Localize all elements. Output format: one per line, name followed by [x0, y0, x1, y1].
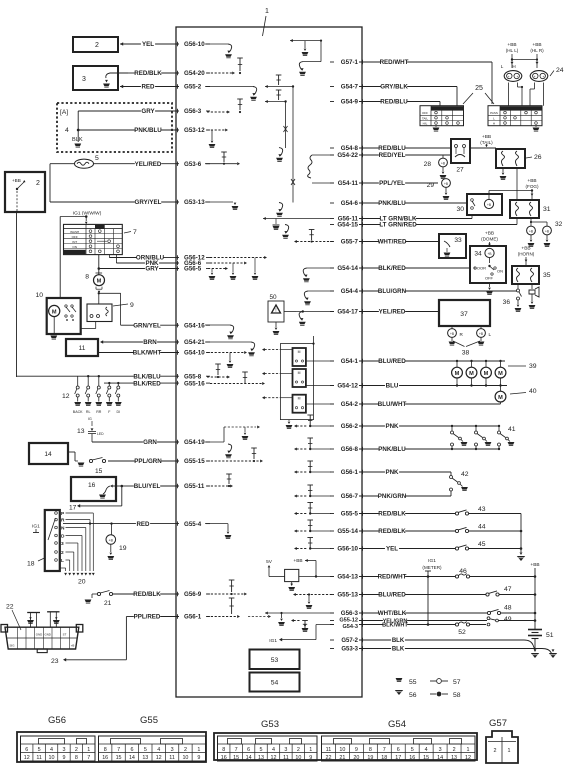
svg-text:6: 6: [25, 747, 28, 753]
svg-text:G54-15: G54-15: [337, 222, 358, 229]
svg-text:M: M: [298, 397, 301, 401]
svg-text:57: 57: [453, 679, 461, 686]
svg-text:BLU/WHT: BLU/WHT: [378, 401, 407, 408]
svg-text:18: 18: [27, 561, 35, 568]
svg-text:G53: G53: [261, 719, 279, 730]
svg-text:35: 35: [543, 272, 551, 279]
svg-text:4: 4: [272, 747, 275, 753]
svg-text:R: R: [61, 517, 65, 523]
svg-text:(METER): (METER): [422, 565, 442, 570]
svg-text:OFF: OFF: [485, 276, 494, 281]
svg-text:G55-5: G55-5: [341, 511, 359, 518]
svg-text:3: 3: [62, 747, 65, 753]
svg-text:IG1: IG1: [32, 524, 40, 530]
interior: G56-3 circuit: [265, 612, 334, 614]
svg-text:H: H: [512, 64, 515, 69]
interior: G56-10 circuit: [205, 43, 228, 45]
svg-text:G53-3: G53-3: [341, 647, 358, 653]
svg-text:+B: +B: [529, 229, 533, 233]
svg-text:11: 11: [79, 345, 86, 352]
wire BLK/RED G55-16: [104, 382, 134, 384]
svg-text:34: 34: [474, 251, 482, 258]
svg-text:BLK/WHT: BLK/WHT: [382, 623, 408, 629]
svg-text:16: 16: [88, 482, 96, 489]
svg-text:28: 28: [424, 161, 432, 168]
svg-text:G57: G57: [489, 718, 507, 729]
wiring inside box A to ground: [77, 111, 79, 130]
wire BLK/BLU G55-8: [17, 375, 134, 377]
wiper motor 8: [98, 255, 100, 275]
svg-text:N: N: [61, 525, 65, 531]
svg-text:5: 5: [411, 747, 414, 753]
svg-text:L: L: [489, 332, 492, 337]
svg-text:PNK: PNK: [385, 423, 399, 430]
svg-text:4: 4: [65, 127, 69, 134]
svg-text:OFF: OFF: [72, 235, 78, 239]
svg-text:4: 4: [157, 747, 160, 753]
svg-text:+B: +B: [71, 644, 75, 648]
svg-text:+BB: +BB: [530, 562, 539, 568]
svg-text:+: +: [533, 75, 535, 79]
svg-text:G55-16: G55-16: [184, 380, 205, 387]
svg-text:49: 49: [504, 616, 512, 623]
svg-text:ON: ON: [72, 245, 77, 249]
svg-text:RED/BLK: RED/BLK: [134, 70, 162, 77]
svg-text:G56-7: G56-7: [341, 493, 359, 500]
svg-text:G53-6: G53-6: [184, 161, 202, 168]
interior: G54-19 circuit: [205, 441, 224, 443]
svg-text:18: 18: [381, 755, 387, 761]
svg-text:2: 2: [494, 748, 497, 754]
svg-text:G55-14: G55-14: [337, 528, 358, 535]
svg-text:7: 7: [133, 229, 137, 236]
svg-text:BRN: BRN: [143, 339, 157, 346]
svg-text:G54-13: G54-13: [337, 574, 358, 581]
svg-text:5: 5: [38, 747, 41, 753]
svg-text:RR: RR: [96, 410, 102, 414]
svg-text:G56-5: G56-5: [184, 266, 202, 273]
svg-text:6: 6: [130, 747, 133, 753]
svg-text:BLU/RED: BLU/RED: [378, 358, 406, 365]
svg-text:G54-22: G54-22: [337, 152, 358, 159]
wire GRN G54-19: [92, 441, 143, 443]
svg-text:G54-11: G54-11: [338, 180, 359, 187]
wire RED/BLK G54-20: [128, 72, 135, 74]
svg-text:G54-7: G54-7: [341, 84, 359, 91]
svg-text:RED/BLU: RED/BLU: [378, 145, 406, 152]
svg-text:13: 13: [77, 428, 85, 435]
svg-text:8: 8: [104, 747, 107, 753]
svg-text:37: 37: [460, 311, 468, 318]
interior: G56-1 circuit: [207, 616, 238, 618]
svg-text:H/L: H/L: [423, 122, 428, 126]
interior right: G54-14 circuit: [307, 267, 334, 269]
svg-text:RED: RED: [141, 84, 155, 91]
svg-text:G54: G54: [388, 719, 406, 730]
svg-text:1: 1: [265, 8, 269, 15]
svg-text:(HL L): (HL L): [506, 48, 519, 53]
headlamp wires to dimmer table: [508, 83, 510, 106]
svg-text:BLK: BLK: [392, 638, 405, 644]
wire GRY G56-3: [78, 110, 141, 112]
svg-text:INT: INT: [72, 240, 77, 244]
svg-text:20: 20: [78, 579, 86, 586]
svg-text:3: 3: [82, 76, 86, 83]
interior right: G54-4 circuit: [308, 290, 334, 292]
svg-text:RED/YEL: RED/YEL: [379, 152, 406, 159]
interior: G55-12 circuit: [294, 620, 301, 622]
transistor hook inside box 3: [106, 73, 128, 78]
svg-text:BLU/RED: BLU/RED: [378, 592, 406, 599]
svg-text:8: 8: [222, 747, 225, 753]
svg-text:WASH: WASH: [70, 230, 79, 234]
svg-text:46: 46: [459, 568, 467, 575]
svg-text:BLU: BLU: [386, 383, 399, 390]
svg-text:15: 15: [423, 755, 429, 761]
svg-text:(HL R): (HL R): [530, 48, 544, 53]
svg-text:PASS: PASS: [490, 111, 498, 115]
svg-text:M: M: [97, 279, 102, 285]
svg-text:5: 5: [95, 155, 99, 162]
svg-text:+: +: [507, 75, 509, 79]
svg-text:RED: RED: [136, 521, 150, 528]
svg-text:10: 10: [339, 747, 345, 753]
svg-text:39: 39: [529, 363, 537, 370]
interior right: G54-1 G54-12 G54-2 connections: [306, 360, 334, 362]
svg-text:GND: GND: [36, 633, 42, 637]
fog lamp switch box 30: [467, 194, 502, 215]
bus to ground right of 43-45: [520, 514, 522, 553]
svg-text:3: 3: [61, 541, 64, 547]
svg-text:50: 50: [269, 294, 277, 301]
motor 40: [500, 386, 502, 392]
interior: G56-12 G56-6 G56-5 circuits: [210, 257, 265, 259]
svg-text:17: 17: [395, 755, 401, 761]
svg-text:12: 12: [465, 755, 471, 761]
svg-text:9: 9: [130, 302, 134, 309]
svg-text:+B: +B: [109, 539, 114, 543]
svg-text:8: 8: [75, 755, 78, 761]
svg-text:6: 6: [247, 747, 250, 753]
svg-text:PNK/BLU: PNK/BLU: [134, 127, 162, 134]
svg-text:LT GRN/RED: LT GRN/RED: [379, 222, 417, 229]
component box 11: [66, 339, 98, 356]
svg-text:PNK/GRN: PNK/GRN: [378, 493, 407, 500]
svg-text:52: 52: [458, 629, 466, 636]
svg-text:7: 7: [87, 755, 90, 761]
svg-text:16: 16: [409, 755, 415, 761]
svg-text:GND: GND: [44, 633, 50, 637]
long wire from box 2 down left margin: [16, 212, 18, 377]
svg-text:M: M: [52, 309, 57, 315]
interior: G55-13 circuit: [296, 594, 335, 596]
svg-text:G56-3: G56-3: [341, 610, 359, 617]
svg-text:BLK: BLK: [392, 647, 405, 653]
fog bulbs 32: [527, 226, 536, 235]
wire RED G55-4: [63, 523, 136, 525]
svg-text:15: 15: [116, 755, 122, 761]
interior: G54-20 circuit: [207, 72, 233, 74]
svg-text:19: 19: [367, 755, 373, 761]
svg-text:1: 1: [309, 747, 312, 753]
svg-text:+BB: +BB: [12, 178, 21, 183]
svg-text:44: 44: [478, 524, 486, 531]
svg-text:4: 4: [50, 747, 53, 753]
svg-text:11: 11: [169, 755, 175, 761]
svg-text:LED: LED: [97, 432, 104, 436]
wire RED G55-2: [122, 86, 141, 88]
svg-text:G53-13: G53-13: [184, 199, 205, 206]
svg-text:21: 21: [339, 755, 345, 761]
svg-text:G54-16: G54-16: [184, 322, 205, 329]
svg-text:GRN: GRN: [143, 439, 157, 446]
svg-text:11: 11: [283, 755, 289, 761]
svg-text:G55-12: G55-12: [339, 617, 358, 623]
interior: G54-16 circuit: [205, 324, 230, 326]
interior right: top feed G57-1: [290, 40, 321, 42]
dashed option box [A] item 4: [57, 103, 172, 152]
svg-text:7: 7: [117, 747, 120, 753]
interior: G53-12 circuit: [207, 129, 226, 131]
svg-text:RL: RL: [86, 410, 91, 414]
interior: G55-11 circuit: [207, 485, 231, 487]
lighting switch table (left of 25): [420, 106, 464, 126]
svg-text:RED/WHT: RED/WHT: [378, 574, 407, 581]
svg-text:+B: +B: [450, 332, 454, 336]
svg-text:41: 41: [508, 426, 516, 433]
svg-text:DI: DI: [117, 410, 121, 414]
wire PPL/GRN G55-15 with switch 15: [68, 451, 75, 453]
svg-text:L: L: [61, 558, 64, 564]
component box 2 (top): [73, 37, 118, 52]
svg-text:11: 11: [36, 755, 42, 761]
svg-text:M: M: [498, 371, 503, 377]
svg-text:14: 14: [44, 451, 52, 458]
svg-text:G54-2: G54-2: [341, 401, 359, 408]
svg-text:PPL/RED: PPL/RED: [134, 614, 161, 621]
svg-text:YEL: YEL: [386, 546, 398, 553]
svg-text:24: 24: [556, 67, 564, 74]
svg-text:+B: +B: [444, 182, 448, 186]
interior: G56-3 circuit: [207, 111, 228, 113]
combination meter unit 1 (main box): [176, 27, 362, 697]
svg-text:G56-9: G56-9: [184, 591, 202, 598]
wire ORN/BLU G56-12: [109, 257, 136, 259]
svg-text:10: 10: [295, 755, 301, 761]
svg-text:+B: +B: [487, 203, 491, 207]
arrow 17: [121, 486, 123, 506]
svg-text:58: 58: [453, 692, 461, 699]
dimmer switch table (right of 25): [488, 106, 542, 126]
svg-text:G54-19: G54-19: [184, 439, 205, 446]
svg-text:G55-2: G55-2: [184, 84, 202, 91]
wire PNK G56-6: [116, 262, 145, 264]
wire GRY G56-5: [99, 268, 145, 270]
bulbs 38 below box 37: [451, 326, 453, 329]
svg-text:G54-4: G54-4: [341, 288, 359, 295]
interior: G56-9 circuit: [207, 593, 245, 595]
svg-text:33: 33: [454, 237, 462, 244]
horn relay box 35: [512, 266, 539, 284]
svg-text:53: 53: [271, 657, 279, 664]
svg-text:54: 54: [271, 680, 279, 687]
svg-text:2: 2: [297, 747, 300, 753]
wire from fuse down-left: [50, 163, 75, 165]
svg-text:PNK/BLU: PNK/BLU: [378, 200, 406, 207]
svg-text:11: 11: [326, 747, 332, 753]
svg-text:G54-14: G54-14: [337, 265, 358, 272]
svg-text:G55-4: G55-4: [184, 521, 202, 528]
svg-text:G55-7: G55-7: [341, 239, 359, 246]
svg-text:22: 22: [6, 604, 14, 611]
connector block G56/G55 outer: [17, 732, 206, 762]
svg-text:2: 2: [36, 180, 40, 187]
svg-text:13: 13: [142, 755, 148, 761]
svg-text:G54-12: G54-12: [337, 383, 358, 390]
interior right: G54-7 G54-9 verticals: [265, 86, 340, 88]
svg-text:10: 10: [49, 755, 55, 761]
svg-text:G56-10: G56-10: [337, 546, 358, 553]
svg-text:40: 40: [529, 388, 537, 395]
svg-text:H: H: [493, 122, 495, 126]
svg-text:(DOME): (DOME): [481, 237, 498, 242]
svg-text:2: 2: [75, 747, 78, 753]
svg-text:42: 42: [461, 471, 469, 478]
svg-text:9: 9: [197, 755, 200, 761]
horn speaker: [531, 284, 533, 289]
component box 53: [250, 650, 300, 670]
svg-text:BLU/YEL: BLU/YEL: [134, 483, 161, 490]
interior right: G54-22/G54-11 coil: [312, 154, 334, 156]
svg-text:GRY: GRY: [141, 108, 155, 115]
interior right: motor driver stack: [280, 344, 313, 420]
svg-text:M: M: [455, 371, 460, 377]
svg-text:51: 51: [546, 632, 554, 639]
svg-text:26: 26: [534, 154, 542, 161]
svg-text:GRY/YEL: GRY/YEL: [135, 199, 162, 206]
interior: G55-8 circuit: [207, 376, 228, 378]
svg-text:M: M: [498, 395, 503, 401]
svg-text:PNK: PNK: [385, 469, 399, 476]
wire GRN/YEL G54-16: [121, 324, 134, 326]
svg-text:G55-15: G55-15: [184, 458, 205, 465]
svg-text:G53-12: G53-12: [184, 127, 205, 134]
svg-text:IG1: IG1: [269, 638, 277, 644]
svg-text:G54-17: G54-17: [337, 309, 358, 316]
svg-text:RED/BLU: RED/BLU: [380, 99, 408, 106]
relay box 27: [451, 139, 470, 163]
svg-text:1: 1: [197, 747, 200, 753]
interior: G53-13 circuit: [205, 201, 233, 203]
svg-text:G56-8: G56-8: [341, 446, 359, 453]
svg-text:15: 15: [233, 755, 239, 761]
svg-text:(HORN): (HORN): [518, 252, 535, 257]
svg-text:+BB: +BB: [293, 558, 302, 564]
svg-text:G54-3: G54-3: [342, 624, 358, 630]
legend symbol 56: [395, 690, 403, 695]
svg-text:+B: +B: [441, 161, 445, 165]
wiper switch table 7: [64, 224, 123, 254]
svg-text:RED/WHT: RED/WHT: [380, 59, 409, 66]
svg-text:21: 21: [104, 600, 112, 607]
svg-text:6: 6: [397, 747, 400, 753]
component box 10 washer motor: [47, 298, 81, 334]
svg-text:12: 12: [62, 393, 70, 400]
wire BRN G54-21: [102, 341, 143, 343]
relay box 26: [496, 149, 525, 168]
svg-text:20: 20: [353, 755, 359, 761]
svg-text:10: 10: [182, 755, 188, 761]
svg-text:BLK: BLK: [72, 137, 83, 143]
connector block G53/G54 outer: [214, 733, 477, 760]
svg-text:17: 17: [69, 505, 77, 512]
svg-text:TAIL: TAIL: [422, 116, 428, 120]
component box 9: [87, 304, 112, 322]
svg-text:9: 9: [62, 755, 65, 761]
svg-text:G55: G55: [140, 715, 158, 726]
svg-text:G56-1: G56-1: [341, 469, 359, 476]
svg-text:1: 1: [467, 747, 470, 753]
svg-text:G57-1: G57-1: [341, 59, 359, 66]
svg-text:12: 12: [24, 755, 30, 761]
svg-text:BLK/RED: BLK/RED: [133, 380, 161, 387]
svg-text:5: 5: [260, 747, 263, 753]
svg-text:56: 56: [409, 692, 417, 699]
svg-text:12: 12: [270, 755, 276, 761]
svg-text:30: 30: [456, 206, 464, 213]
component box 2 (battery feed, left margin): [5, 172, 45, 212]
component box 3: [73, 66, 118, 90]
svg-text:ON: ON: [497, 269, 503, 274]
wire BLU/YEL G55-11: [122, 485, 134, 487]
svg-text:29: 29: [427, 182, 435, 189]
svg-text:G54-9: G54-9: [341, 99, 359, 106]
svg-text:4: 4: [425, 747, 428, 753]
svg-text:IG1 (W/W/W): IG1 (W/W/W): [73, 210, 102, 216]
svg-text:3: 3: [284, 747, 287, 753]
svg-text:G54-6: G54-6: [341, 200, 359, 207]
switch 21 + wire RED/BLK G56-9: [113, 593, 134, 595]
interior: G53-6 circuit: [205, 163, 237, 165]
svg-text:!: !: [275, 308, 276, 314]
svg-text:16: 16: [102, 755, 108, 761]
component box 54: [250, 673, 300, 692]
svg-text:WHT/RED: WHT/RED: [378, 239, 407, 246]
bulb 29: [442, 179, 451, 188]
dome lamp box 34: [470, 246, 506, 283]
svg-text:8: 8: [369, 747, 372, 753]
legend symbol 58: [430, 693, 436, 695]
svg-text:13: 13: [258, 755, 264, 761]
svg-text:GRY/BLK: GRY/BLK: [380, 84, 408, 91]
svg-text:BLU/GRN: BLU/GRN: [378, 288, 407, 295]
svg-text:2: 2: [453, 747, 456, 753]
svg-text:SIG: SIG: [10, 644, 16, 648]
legend symbol 57: [430, 680, 436, 682]
box 9 to box 10 link: [95, 322, 97, 329]
svg-text:25: 25: [475, 85, 483, 92]
interior: G54-21 circuit: [205, 341, 251, 343]
component box 14: [29, 443, 68, 464]
ground under driver stack: [288, 420, 290, 421]
svg-text:8: 8: [85, 274, 89, 281]
svg-text:[A]: [A]: [60, 109, 68, 116]
svg-text:M: M: [469, 371, 474, 377]
svg-text:27: 27: [456, 167, 464, 174]
wire YEL/RED G53-6: [94, 163, 135, 165]
svg-text:G54-20: G54-20: [184, 70, 205, 77]
fuse 5 oval: [75, 159, 94, 168]
